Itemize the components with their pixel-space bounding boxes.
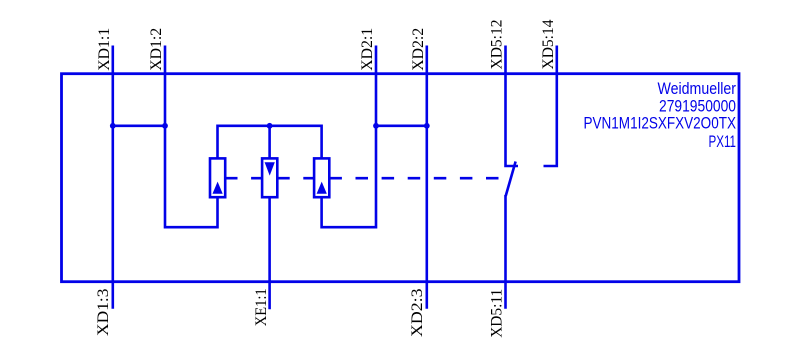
dashed actuator linkage line <box>225 177 499 180</box>
label XD2:1 <box>358 28 376 71</box>
svg-text:XD1:1: XD1:1 <box>95 28 113 71</box>
junction dot at XD1:2 link <box>162 123 168 129</box>
svg-text:PX11: PX11 <box>709 133 737 151</box>
label XE1:1 <box>252 288 270 326</box>
part number text <box>659 97 736 115</box>
svg-text:2791950000: 2791950000 <box>659 97 736 115</box>
label XD1:1 <box>95 28 113 71</box>
wire XD1:1 to XD1:3 through line <box>112 46 115 309</box>
svg-text:XD5:12: XD5:12 <box>488 20 506 70</box>
model text PX11 <box>709 133 737 151</box>
wire XD2:2 to XD2:3 through line <box>425 46 428 309</box>
svg-text:XD2:1: XD2:1 <box>358 28 376 71</box>
junction dot at XD2:1 link <box>373 123 379 129</box>
wire middle arrester top stub <box>268 126 271 159</box>
type designation text <box>584 115 737 133</box>
svg-text:XD1:2: XD1:2 <box>147 28 165 71</box>
junction dot at XD1:1 link <box>110 123 116 129</box>
wire XD1:2 terminal down to left arrester bottom <box>165 46 218 228</box>
wire middle arrester bottom to XE1:1 <box>268 197 271 309</box>
switch blade <box>506 162 516 197</box>
label XD2:3 <box>408 289 426 338</box>
wire switch to XD5:11 <box>504 195 507 309</box>
wire arrester top rail <box>218 126 322 159</box>
svg-text:XE1:1: XE1:1 <box>252 288 270 326</box>
svg-text:XD1:3: XD1:3 <box>94 289 112 337</box>
surge arrester F2 middle body <box>262 158 277 197</box>
junction dot at XD2:2 link <box>424 123 430 129</box>
label XD5:11 <box>488 289 506 338</box>
device outline box <box>62 74 740 282</box>
wire XD2:1 terminal down to right arrester bottom <box>322 46 376 228</box>
svg-text:XD2:3: XD2:3 <box>408 289 426 338</box>
label XD2:2 <box>409 28 427 71</box>
svg-text:XD5:14: XD5:14 <box>539 20 557 70</box>
svg-text:Weidmueller: Weidmueller <box>658 80 737 98</box>
wire link XD2:1 to XD2:2 <box>376 125 427 128</box>
label XD5:12 <box>488 20 506 70</box>
svg-text:XD2:2: XD2:2 <box>409 28 427 71</box>
manufacturer name text <box>658 80 737 98</box>
wire XD5:14 terminal with contact bar <box>544 46 557 167</box>
wire link XD1:1 to XD1:2 <box>113 125 165 128</box>
label XD5:14 <box>539 20 557 70</box>
label XD1:2 <box>147 28 165 71</box>
wire XD5:12 terminal with contact bar <box>506 46 519 167</box>
svg-text:PVN1M1I2SXFXV2O0TX: PVN1M1I2SXFXV2O0TX <box>584 115 737 133</box>
surge arrester F3 right body <box>314 158 329 197</box>
label XD1:3 <box>94 289 112 337</box>
junction dot middle arrester rail <box>267 123 273 129</box>
surge arrester F1 left body <box>210 158 225 197</box>
svg-text:XD5:11: XD5:11 <box>488 289 506 338</box>
